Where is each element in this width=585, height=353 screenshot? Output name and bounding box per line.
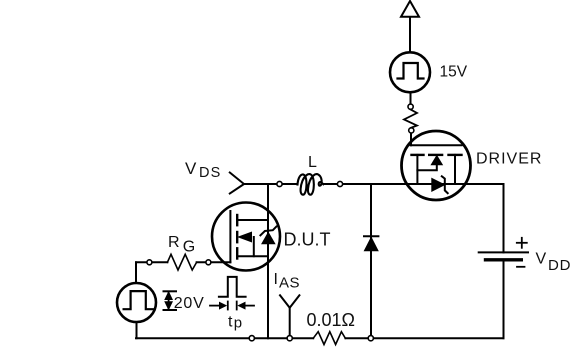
svg-text:AS: AS (279, 275, 300, 292)
svg-text:0.01Ω: 0.01Ω (307, 310, 356, 330)
svg-text:G: G (183, 239, 195, 256)
svg-text:t: t (228, 313, 233, 330)
svg-text:V: V (536, 250, 547, 267)
svg-text:DRIVER: DRIVER (476, 151, 542, 168)
svg-text:p: p (234, 314, 242, 331)
svg-text:D.U.T: D.U.T (284, 230, 331, 250)
svg-text:V: V (185, 159, 197, 178)
svg-text:DD: DD (548, 257, 571, 274)
svg-text:20V: 20V (174, 295, 205, 312)
svg-text:R: R (168, 234, 180, 251)
svg-text:L: L (308, 154, 317, 171)
svg-text:DS: DS (199, 165, 222, 181)
svg-text:I: I (274, 271, 278, 288)
svg-text:15V: 15V (440, 63, 468, 80)
